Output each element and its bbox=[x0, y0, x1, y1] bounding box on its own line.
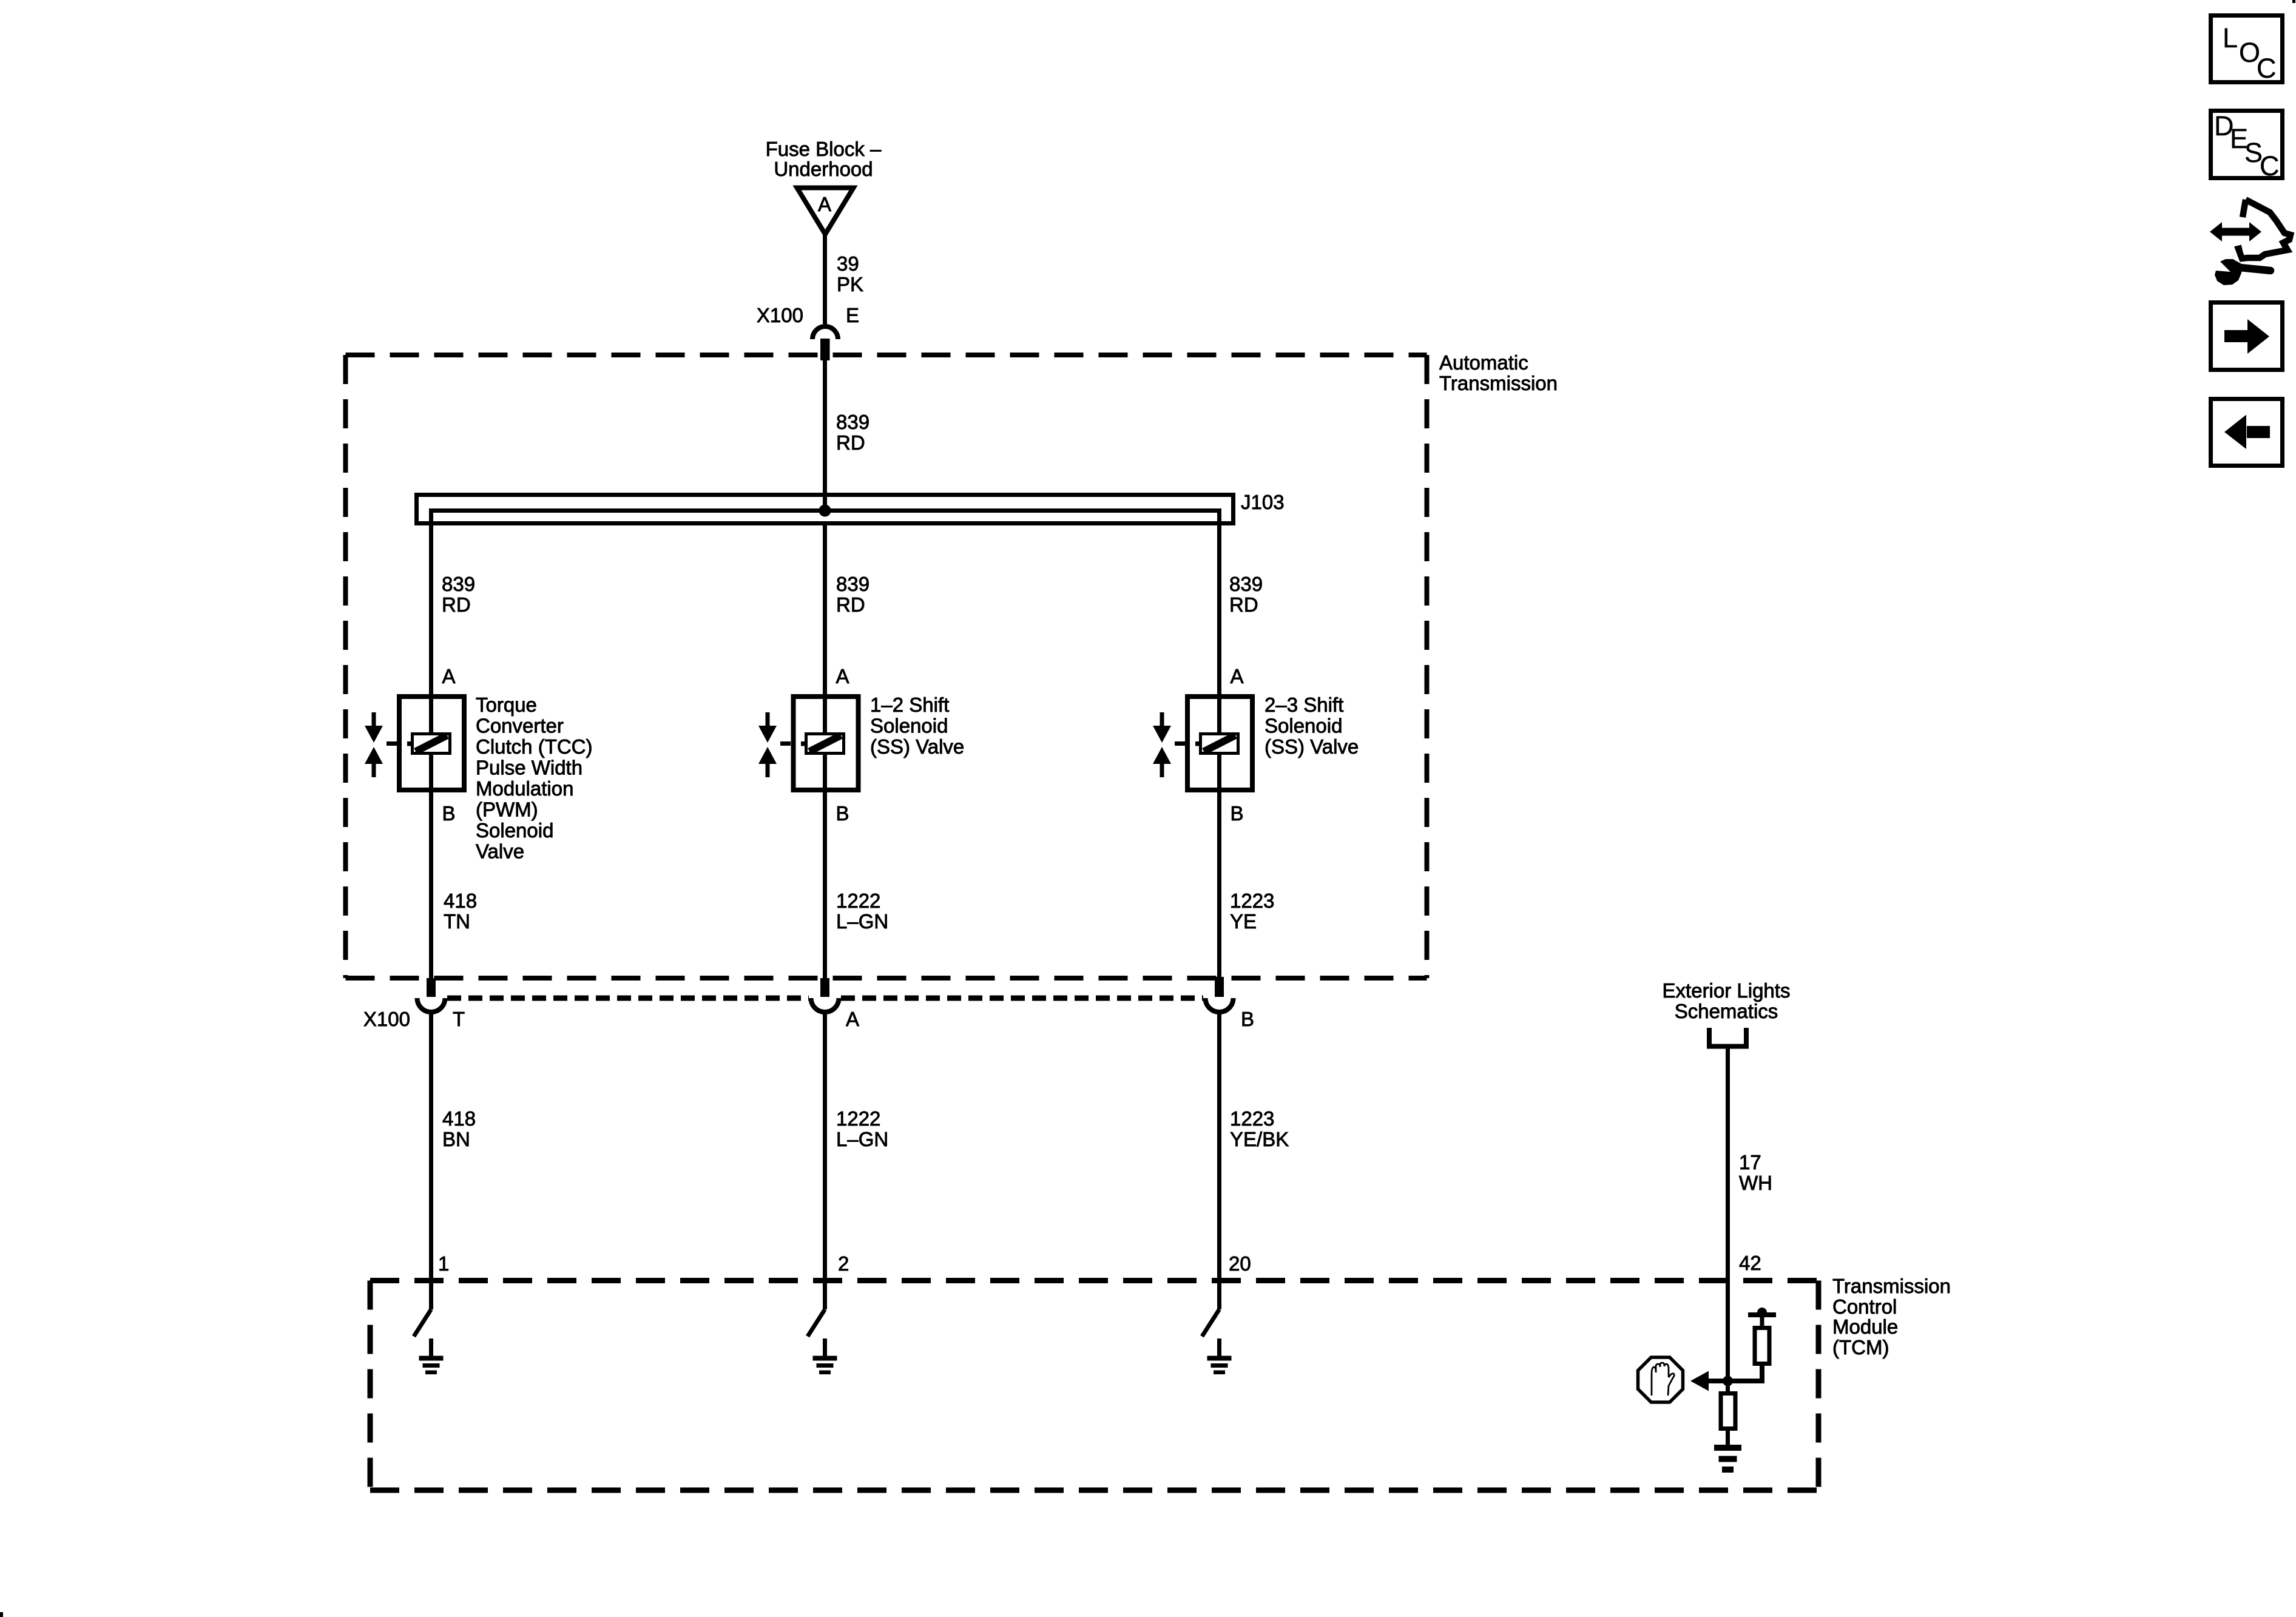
fuse block label bbox=[766, 138, 882, 180]
svg-text:A: A bbox=[1231, 665, 1244, 687]
svg-text:C: C bbox=[2260, 150, 2280, 181]
ground (TCM internal) bbox=[1714, 1445, 1741, 1473]
svg-text:RD: RD bbox=[836, 593, 865, 616]
switch contact (TCM pin 2) bbox=[808, 1309, 825, 1337]
svg-text:Valve: Valve bbox=[476, 840, 524, 863]
wire 1223 YE (2-3 SS pin B to X100 B) bbox=[1217, 755, 1221, 977]
wire 418 TN (TCC pin B to X100 T) bbox=[429, 755, 433, 978]
svg-text:Modulation: Modulation bbox=[476, 777, 573, 800]
svg-text:839: 839 bbox=[1229, 573, 1263, 595]
ground (TCM pin 1 driver) bbox=[419, 1338, 444, 1374]
wire 839 RD left branch (J103 to TCC solenoid pin A) bbox=[429, 523, 433, 732]
connector X100 dashed line (bottom) bbox=[447, 996, 1203, 1001]
valve flow symbol (TCC) bbox=[365, 712, 383, 777]
label 839 RD (middle) bbox=[836, 573, 869, 616]
svg-text:Torque: Torque bbox=[476, 694, 537, 716]
ground (TCM pin 2 driver) bbox=[813, 1338, 837, 1374]
svg-text:Transmission: Transmission bbox=[1832, 1275, 1951, 1297]
connector X100 terminal B (pin + arc) bbox=[1206, 977, 1234, 1012]
label 39 PK bbox=[837, 252, 863, 295]
label 418 BN bbox=[442, 1107, 476, 1150]
wire 839 RD middle branch (J103 to 1-2 SS valve pin A) bbox=[823, 523, 827, 732]
LOC navigation box bbox=[2211, 16, 2283, 84]
solenoid TCC PWM valve body bbox=[387, 697, 464, 790]
hand warning octagon icon bbox=[1638, 1357, 1683, 1402]
svg-text:C: C bbox=[2257, 53, 2277, 84]
label 2-3 Shift Solenoid (SS) Valve bbox=[1264, 694, 1359, 758]
wire 418 BN (X100 T to TCM pin 1) bbox=[429, 1014, 433, 1309]
label 839 RD (left) bbox=[442, 573, 475, 616]
svg-text:B: B bbox=[1241, 1008, 1254, 1030]
svg-text:Pulse Width: Pulse Width bbox=[476, 757, 582, 779]
arrow to hand icon bbox=[1707, 1379, 1728, 1383]
svg-text:A: A bbox=[846, 1008, 859, 1030]
label 839 RD (upper) bbox=[836, 411, 869, 454]
harness troubleshooting icon bbox=[2210, 200, 2291, 285]
svg-text:Module: Module bbox=[1832, 1315, 1898, 1338]
Automatic Transmission dashed box bbox=[346, 355, 1427, 978]
svg-text:RD: RD bbox=[442, 593, 471, 616]
wire 17 WH (Exterior Lights to TCM pin 42) bbox=[1726, 1047, 1730, 1382]
label Torque Converter Clutch (TCC) PWM Solenoid Valve bbox=[476, 694, 593, 863]
svg-text:Solenoid: Solenoid bbox=[1264, 715, 1342, 737]
connector X100 terminal E (arc + pin) bbox=[812, 326, 838, 360]
svg-text:A: A bbox=[836, 665, 849, 687]
svg-text:20: 20 bbox=[1229, 1252, 1251, 1275]
next page arrow box bbox=[2211, 303, 2283, 370]
svg-text:(PWM): (PWM) bbox=[476, 798, 538, 821]
wire 39 PK (fuse block to X100) bbox=[823, 234, 827, 324]
svg-text:X100: X100 bbox=[757, 304, 803, 326]
svg-text:TN: TN bbox=[444, 910, 470, 933]
svg-text:(TCM): (TCM) bbox=[1832, 1336, 1889, 1359]
switch contact (TCM pin 1) bbox=[414, 1309, 431, 1337]
svg-text:17: 17 bbox=[1739, 1151, 1761, 1173]
svg-text:A: A bbox=[818, 193, 831, 215]
svg-text:Transmission: Transmission bbox=[1439, 372, 1558, 394]
svg-text:RD: RD bbox=[836, 431, 865, 454]
junction dot on supply bar bbox=[1757, 1308, 1767, 1317]
svg-text:YE/BK: YE/BK bbox=[1230, 1128, 1289, 1150]
svg-text:1223: 1223 bbox=[1230, 1107, 1274, 1130]
svg-text:L: L bbox=[2223, 22, 2238, 53]
svg-text:J103: J103 bbox=[1241, 491, 1285, 513]
wire (R1 to junction) bbox=[1728, 1364, 1763, 1382]
label 1223 YE/BK bbox=[1230, 1107, 1289, 1150]
svg-text:Solenoid: Solenoid bbox=[476, 819, 553, 842]
svg-text:839: 839 bbox=[836, 411, 869, 433]
connector X100 terminal T (pin + arc) bbox=[417, 978, 445, 1012]
svg-text:B: B bbox=[442, 802, 456, 825]
label 1222 L-GN (lower) bbox=[836, 1107, 888, 1150]
svg-text:418: 418 bbox=[444, 890, 477, 912]
wire (R2 to ground) bbox=[1726, 1429, 1730, 1447]
svg-text:39: 39 bbox=[837, 252, 859, 275]
valve flow symbol (2-3 SS) bbox=[1153, 712, 1171, 777]
svg-text:1223: 1223 bbox=[1230, 890, 1274, 912]
svg-text:1222: 1222 bbox=[836, 890, 880, 912]
DESC navigation box bbox=[2211, 110, 2283, 181]
svg-text:418: 418 bbox=[442, 1107, 476, 1130]
svg-text:Automatic: Automatic bbox=[1439, 351, 1528, 374]
junction dot J103 bbox=[819, 505, 831, 517]
label Transmission Control Module (TCM) bbox=[1832, 1275, 1951, 1359]
svg-text:WH: WH bbox=[1739, 1172, 1772, 1194]
wire 839 RD right branch (J103 to 2-3 SS valve pin A) bbox=[1217, 523, 1221, 732]
connector A triangle (Fuse Block - Underhood) bbox=[797, 188, 854, 235]
page corner mark (top right) bbox=[2292, 0, 2295, 3]
svg-text:A: A bbox=[442, 665, 456, 687]
junction dot (pin 42 node) bbox=[1723, 1376, 1733, 1386]
svg-text:839: 839 bbox=[836, 573, 869, 595]
Transmission Control Module dashed box bbox=[370, 1281, 1818, 1491]
resistor R2 (pull-down to ground) bbox=[1721, 1394, 1735, 1429]
resistor R1 (pull-up) bbox=[1755, 1328, 1769, 1364]
svg-text:T: T bbox=[453, 1008, 465, 1030]
wire 1223 YE/BK (X100 B to TCM pin 20) bbox=[1217, 1014, 1221, 1309]
ground (TCM pin 20 driver) bbox=[1207, 1338, 1232, 1374]
off-page connector bracket (Exterior Lights) bbox=[1707, 1028, 1749, 1047]
svg-text:Fuse Block –: Fuse Block – bbox=[766, 138, 882, 160]
svg-text:Exterior Lights: Exterior Lights bbox=[1663, 979, 1791, 1002]
svg-text:(SS) Valve: (SS) Valve bbox=[1264, 735, 1359, 758]
wire 1222 L-GN (X100 A to TCM pin 2) bbox=[823, 1014, 827, 1309]
svg-text:RD: RD bbox=[1229, 593, 1258, 616]
svg-text:(SS) Valve: (SS) Valve bbox=[870, 735, 964, 758]
label 1222 L-GN (upper) bbox=[836, 890, 888, 933]
svg-text:E: E bbox=[846, 304, 859, 326]
svg-text:B: B bbox=[836, 802, 849, 825]
svg-text:1–2 Shift: 1–2 Shift bbox=[870, 694, 949, 716]
svg-text:PK: PK bbox=[837, 273, 863, 295]
svg-text:1222: 1222 bbox=[836, 1107, 880, 1130]
internal voltage bar (TCM pull-up supply) bbox=[1748, 1312, 1776, 1317]
svg-text:BN: BN bbox=[442, 1128, 470, 1150]
svg-text:Schematics: Schematics bbox=[1675, 1000, 1778, 1022]
solenoid 1-2 shift SS valve body bbox=[780, 697, 859, 790]
wire 1222 L-GN (1-2 SS pin B to X100 A) bbox=[823, 755, 827, 978]
svg-text:L–GN: L–GN bbox=[836, 1128, 888, 1150]
svg-text:L–GN: L–GN bbox=[836, 910, 888, 933]
svg-text:1: 1 bbox=[438, 1252, 449, 1275]
solenoid 2-3 shift SS valve body bbox=[1175, 697, 1252, 790]
switch contact (TCM pin 20) bbox=[1202, 1309, 1220, 1337]
svg-text:X100: X100 bbox=[363, 1008, 410, 1030]
svg-text:2–3 Shift: 2–3 Shift bbox=[1264, 694, 1343, 716]
label 1-2 Shift Solenoid (SS) Valve bbox=[870, 694, 964, 758]
svg-text:Solenoid: Solenoid bbox=[870, 715, 948, 737]
label 1223 YE bbox=[1230, 890, 1274, 933]
label 839 RD (right) bbox=[1229, 573, 1263, 616]
label 17 WH bbox=[1739, 1151, 1772, 1194]
page corner mark (bottom left) bbox=[0, 1612, 3, 1617]
wire 839 RD (X100 to J103) bbox=[823, 360, 827, 510]
previous page arrow box bbox=[2211, 399, 2283, 466]
label Exterior Lights Schematics bbox=[1663, 979, 1791, 1022]
valve flow symbol (1-2 SS) bbox=[758, 712, 777, 777]
svg-text:42: 42 bbox=[1739, 1252, 1761, 1274]
svg-text:YE: YE bbox=[1230, 910, 1257, 933]
splice J103 bus bar bbox=[417, 495, 1234, 524]
svg-text:Underhood: Underhood bbox=[774, 158, 873, 180]
svg-text:Control: Control bbox=[1832, 1295, 1897, 1318]
label Automatic Transmission bbox=[1439, 351, 1558, 394]
svg-text:Clutch (TCC): Clutch (TCC) bbox=[476, 735, 593, 758]
svg-text:2: 2 bbox=[838, 1252, 849, 1275]
svg-text:Converter: Converter bbox=[476, 715, 564, 737]
label 418 TN bbox=[444, 890, 477, 933]
svg-text:B: B bbox=[1231, 802, 1244, 825]
wire (junction to R2) bbox=[1726, 1381, 1730, 1394]
wire (supply bar to resistor R1) bbox=[1760, 1317, 1764, 1328]
svg-text:839: 839 bbox=[442, 573, 475, 595]
connector X100 terminal A (pin + arc) bbox=[811, 978, 839, 1012]
